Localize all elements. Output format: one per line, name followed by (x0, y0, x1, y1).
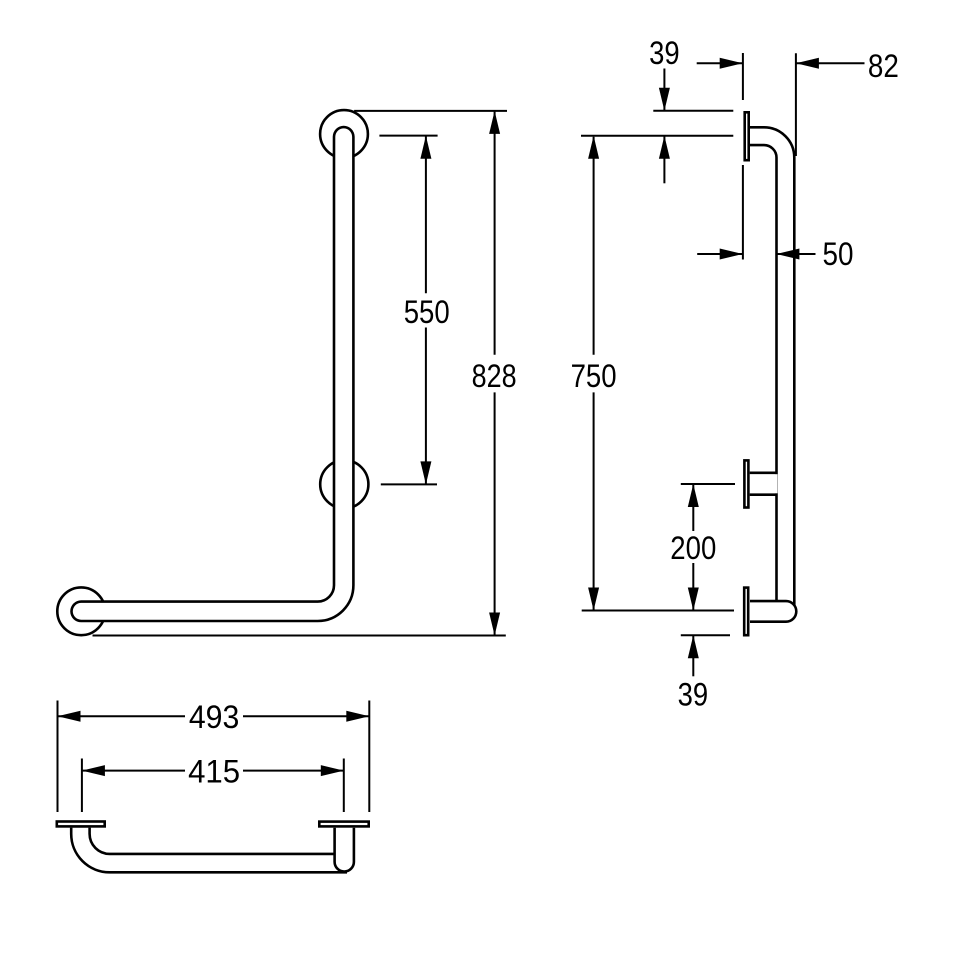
750 arrow down (588, 588, 599, 611)
828 arrow up (489, 111, 500, 134)
828 bottom extension line (93, 635, 506, 637)
middle wall flange (circle) (320, 460, 368, 508)
svg-text:50: 50 (823, 236, 854, 272)
750 dimension line (593, 137, 595, 611)
grab bar tube (front view) white interior (81, 137, 344, 612)
middle mount post white fill (750, 474, 778, 493)
svg-text:39: 39 (678, 676, 709, 712)
39 bottom arrow up (688, 635, 699, 658)
415 dimension line (82, 770, 344, 772)
grab bar tube (front view) outline (81, 137, 344, 612)
50 arrow left (776, 249, 799, 260)
82 arrow left (796, 58, 819, 69)
200 arrow up (688, 484, 699, 507)
wall extension line upper segment (742, 53, 744, 100)
svg-text:39: 39 (649, 35, 680, 71)
tube (top view) white interior (80, 828, 347, 864)
svg-text:200: 200 (670, 530, 716, 566)
493 arrow left (58, 711, 81, 722)
right flange plate (top view) (319, 822, 368, 827)
left flange plate (top view) (57, 822, 105, 827)
39 lower tail line (663, 136, 665, 184)
550 bottom extension line (381, 483, 437, 485)
750 top extension line (581, 135, 733, 137)
svg-text:750: 750 (571, 358, 617, 394)
550 dimension line (425, 136, 427, 485)
svg-text:550: 550 (404, 294, 450, 330)
550 arrow down (420, 461, 431, 484)
200 top extension line (681, 483, 735, 485)
493 dimension line (58, 715, 370, 717)
tube (top view) outline (80, 828, 347, 864)
vertical leg seen from above (capsule) (335, 828, 354, 872)
39 bottom extension line (681, 634, 730, 636)
550 top extension line (379, 135, 437, 137)
svg-text:828: 828 (472, 358, 517, 394)
bottom mount stub (capsule) (750, 601, 796, 622)
750 arrow up (588, 136, 599, 159)
415 arrow left (82, 765, 105, 776)
middle flange plate (side view) (744, 460, 748, 507)
39 top tail line (663, 69, 665, 111)
tube (side view) white interior (749, 136, 785, 611)
svg-text:82: 82 (868, 48, 899, 84)
493 left witness line (57, 701, 59, 813)
200 arrow down (688, 588, 699, 611)
82 arrow right (720, 58, 743, 69)
50 arrow right (720, 249, 743, 260)
svg-text:415: 415 (188, 753, 240, 789)
415 right witness line (343, 759, 345, 813)
828 arrow down (489, 613, 500, 636)
200 dimension line (692, 484, 694, 611)
828 top extension line (354, 110, 507, 112)
550 arrow up (420, 136, 431, 159)
39 bottom tail line (692, 635, 694, 676)
top flange plate (side view) (745, 112, 749, 160)
50 left tail line (697, 253, 743, 255)
top wall flange (circle) (320, 110, 368, 158)
493 right witness line (368, 701, 370, 813)
svg-text:493: 493 (189, 699, 240, 735)
tube (side view) outline (749, 136, 785, 611)
493 arrow right (346, 711, 369, 722)
39 top extension line (653, 110, 733, 112)
50 right tail line (776, 253, 815, 255)
39 top arrow down (659, 88, 670, 111)
415 arrow right (321, 765, 344, 776)
415 left witness line (81, 759, 83, 813)
82 right tail line (796, 62, 865, 64)
828 dimension line (494, 111, 496, 636)
750 bottom extension line (582, 610, 734, 612)
wall extension line lower segment (742, 165, 744, 260)
39 lower arrow up (659, 136, 670, 159)
middle mount post edges (750, 473, 778, 495)
tube outer right edge extension line (for 82) (795, 53, 797, 156)
bottom flange plate (side view) (744, 588, 748, 636)
bottom end flange (circle) (57, 587, 105, 635)
82 left tail line (697, 62, 743, 64)
